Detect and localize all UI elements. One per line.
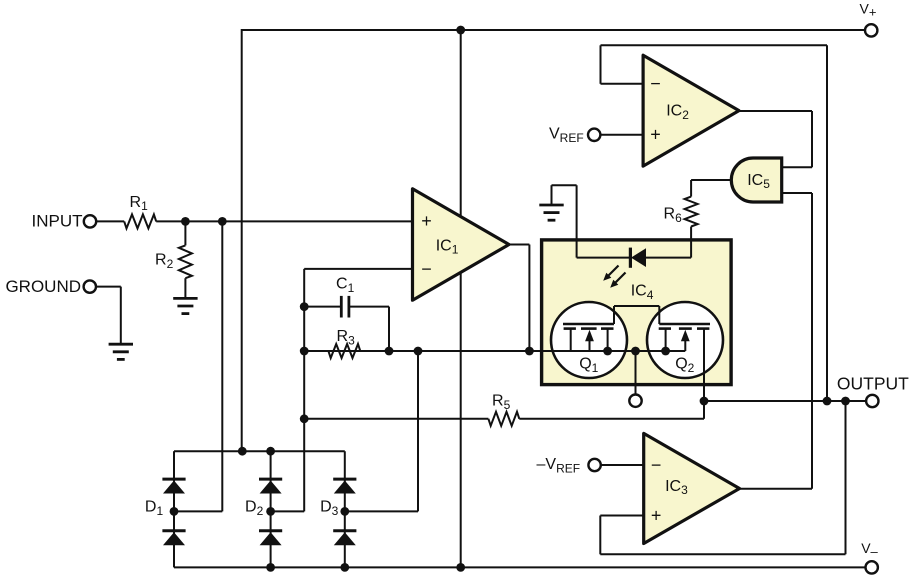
- junction Q2 source: [661, 347, 670, 356]
- terminal V-: [861, 540, 878, 574]
- transistor Q1 channel: [564, 327, 614, 330]
- junction D3 mid: [340, 507, 349, 516]
- junction D1 mid: [170, 507, 179, 516]
- wire input line: [96, 220, 412, 222]
- svg-text:+: +: [421, 211, 432, 231]
- wire IC2 output to IC5: [739, 111, 812, 167]
- wire IC5 upper input stub: [782, 166, 812, 168]
- wire R6 to LED anode: [646, 227, 691, 258]
- ground symbol at R2: [173, 298, 197, 313]
- svg-text:+: +: [650, 125, 661, 145]
- wire IC5 lower input from IC3: [739, 193, 812, 489]
- LED in IC4: [630, 248, 646, 268]
- terminal INPUT: [32, 211, 97, 230]
- transistor Q1 drain lead: [570, 329, 572, 351]
- wire D3 tap riser: [345, 351, 418, 511]
- junction diode bus A: [238, 447, 247, 456]
- svg-text:−: −: [650, 74, 661, 94]
- junction bottom rail C: [456, 563, 465, 572]
- junction output node C: [841, 397, 850, 406]
- junction IC4 center tap: [631, 347, 640, 356]
- wire IC2 feedback loop: [601, 45, 828, 401]
- resistor R6: [664, 197, 698, 227]
- wire IC5 output to R6: [691, 180, 733, 197]
- capacitor C1: [336, 276, 355, 318]
- diode D2 lower: [259, 531, 282, 545]
- resistor R1: [124, 194, 156, 229]
- gate IC5: [731, 158, 781, 202]
- junction top bus: [456, 26, 465, 35]
- transistor Q1 body arrow: [585, 330, 594, 351]
- svg-text:+: +: [651, 506, 662, 526]
- svg-text:OUTPUT: OUTPUT: [837, 374, 909, 394]
- junction D3 riser: [414, 347, 423, 356]
- transistor Q2 gate: [659, 306, 710, 324]
- diode D1 upper: [162, 479, 185, 493]
- resistor R5: [488, 393, 519, 426]
- wire D1 column: [173, 451, 175, 567]
- wire diode-string top bus: [174, 450, 345, 452]
- LED light arrows: [603, 266, 625, 288]
- transistor Q2 envelope: [647, 302, 723, 378]
- wire input node drop to D1 tap: [174, 221, 222, 511]
- transistor Q2 drain lead: [703, 329, 705, 385]
- diode D3 lower: [333, 531, 356, 545]
- wire R3 feedback line: [304, 350, 685, 352]
- wire ground terminal lead: [96, 287, 121, 344]
- wire inverting-input branch: [271, 269, 413, 512]
- wire -VREF lead: [601, 464, 644, 466]
- transistor Q2 body arrow: [681, 330, 690, 351]
- diode D1 lower: [162, 531, 185, 545]
- wire V- bottom rail: [174, 566, 865, 568]
- wire V+ top rail: [242, 29, 865, 31]
- label D3: [320, 499, 339, 518]
- wire C1 branch: [304, 307, 389, 351]
- junction bottom rail A: [266, 563, 275, 572]
- svg-text:−: −: [421, 259, 432, 279]
- junction diode bus B: [266, 447, 275, 456]
- wire VREF lead: [600, 134, 643, 136]
- transistor Q2 source lead: [665, 329, 667, 351]
- wire IC4 common tap to pin: [635, 351, 637, 394]
- optocoupler IC4 package: [542, 240, 732, 385]
- wire IC1 output: [509, 245, 529, 352]
- op-amp IC1: [413, 189, 510, 300]
- transistor Q1 gate: [563, 306, 659, 324]
- label D1: [145, 499, 164, 518]
- terminal GROUND: [5, 277, 96, 296]
- svg-text:−: −: [651, 455, 662, 475]
- svg-text:GROUND: GROUND: [5, 277, 81, 296]
- wire D2 column: [270, 451, 272, 567]
- svg-text:INPUT: INPUT: [32, 211, 83, 230]
- transistor Q2 channel: [659, 327, 710, 330]
- resistor R3: [328, 328, 360, 358]
- label IC4: [631, 282, 654, 301]
- terminal -VREF: [537, 456, 601, 475]
- junction C1 right: [385, 347, 394, 356]
- diode D2 upper: [259, 479, 282, 493]
- wire output line: [704, 400, 866, 402]
- junction R5 left: [300, 414, 309, 423]
- junction Q1 source: [603, 347, 612, 356]
- label Q1: [579, 356, 598, 375]
- op-amp IC2: [643, 55, 739, 166]
- junction bottom rail B: [340, 563, 349, 572]
- wire center vertical bus: [460, 30, 462, 567]
- terminal V+: [860, 0, 878, 36]
- wire R5 line: [304, 401, 704, 419]
- junction D2 mid: [266, 507, 275, 516]
- junction input node B: [218, 217, 227, 226]
- wire left V+ drop to diode bus: [241, 29, 243, 451]
- label D2: [245, 499, 264, 518]
- junction output node A: [700, 397, 709, 406]
- transistor Q1 envelope: [551, 302, 627, 378]
- junction output node B: [823, 397, 832, 406]
- ground symbol at GROUND terminal: [109, 344, 133, 359]
- diode D3 upper: [333, 479, 356, 493]
- terminal OUTPUT: [837, 374, 909, 408]
- wire IC3 feedback loop: [600, 401, 845, 554]
- op-amp IC3: [644, 433, 740, 543]
- junction C1 left: [300, 302, 309, 311]
- label Q2: [675, 356, 694, 375]
- terminal IC4 common: [629, 395, 641, 407]
- wire D3 column: [344, 451, 346, 567]
- terminal VREF: [549, 126, 600, 145]
- junction R3 left: [300, 347, 309, 356]
- transistor Q1 source lead: [607, 329, 609, 351]
- ground symbol at IC4 LED: [539, 205, 563, 220]
- junction input node A: [181, 217, 190, 226]
- wire source line through Q1 Q2: [304, 350, 685, 352]
- junction IC1 out: [525, 347, 534, 356]
- resistor R2: [155, 221, 192, 297]
- wire LED cathode to ground: [552, 185, 630, 257]
- wire Q2 drain to output node: [703, 328, 705, 401]
